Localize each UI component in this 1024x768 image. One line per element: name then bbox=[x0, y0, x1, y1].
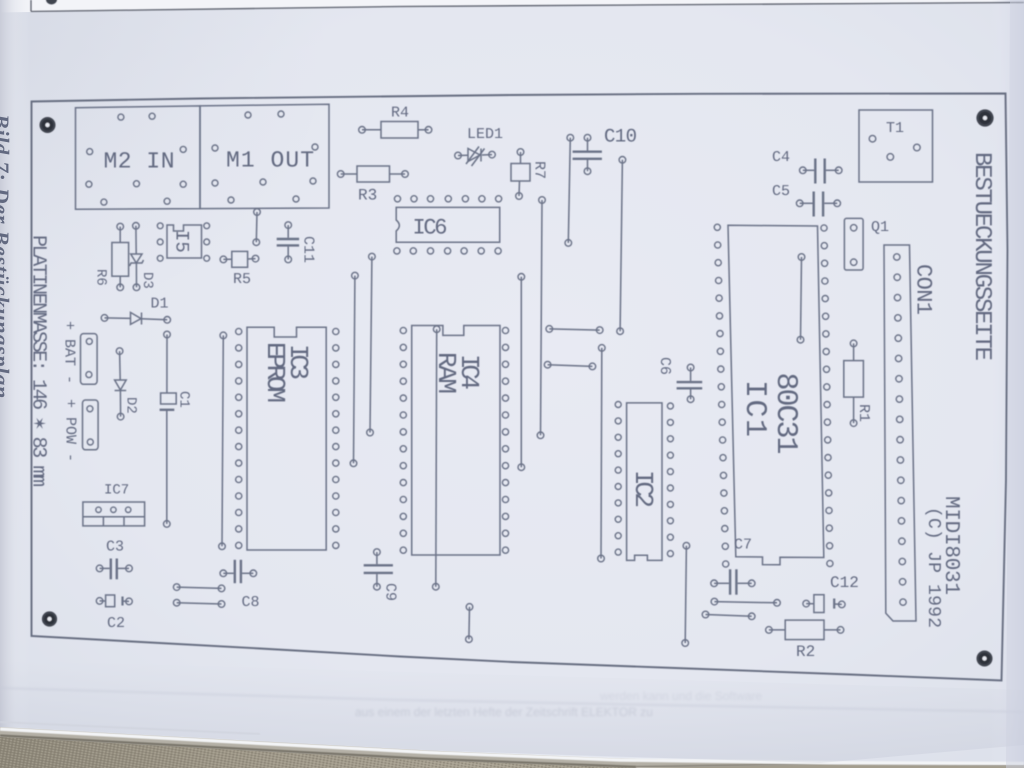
label (C) JP 1992 bbox=[923, 507, 943, 628]
mounting hole top-right bbox=[976, 109, 993, 126]
capacitor C3 bbox=[96, 559, 132, 580]
svg-text:D1: D1 bbox=[151, 296, 169, 313]
wire through IC4 bbox=[433, 326, 441, 590]
svg-text:R5: R5 bbox=[233, 271, 251, 288]
crystal Q1 bbox=[844, 218, 863, 270]
svg-text:C11: C11 bbox=[300, 236, 317, 263]
svg-text:R3: R3 bbox=[358, 187, 377, 205]
wire below IC6 a bbox=[367, 253, 376, 436]
resistor R3 bbox=[337, 166, 408, 182]
wire left of C10 bbox=[565, 134, 574, 246]
svg-text:C7: C7 bbox=[734, 537, 752, 554]
svg-text:D2: D2 bbox=[123, 397, 139, 414]
svg-text:+ POW -: + POW - bbox=[62, 399, 79, 462]
capacitor C5 bbox=[796, 192, 840, 217]
wire below IC6 b bbox=[350, 272, 358, 466]
capacitor C10 bbox=[573, 134, 602, 174]
IC IC4 RAM bbox=[400, 326, 508, 556]
IC IC6 bbox=[394, 196, 502, 254]
wire jumper e bbox=[598, 345, 605, 562]
capacitor C11 bbox=[277, 222, 299, 263]
jumper wire bottom-left b bbox=[173, 599, 224, 607]
board outline bbox=[32, 94, 1008, 681]
jumper wire bottom-left a bbox=[173, 584, 224, 592]
svg-text:Q1: Q1 bbox=[871, 219, 889, 236]
transformer T1 bbox=[859, 110, 933, 182]
svg-text:+ BAT -: + BAT - bbox=[61, 321, 78, 384]
resistor R6 bbox=[112, 223, 129, 290]
svg-text:EPROM: EPROM bbox=[260, 342, 290, 403]
capacitor C6 bbox=[677, 364, 703, 402]
wire below M1 bbox=[253, 209, 260, 246]
svg-text:C6: C6 bbox=[656, 357, 673, 375]
diode D1 bbox=[101, 312, 170, 324]
wire right of C10 bbox=[617, 157, 626, 335]
resistor R5 bbox=[220, 251, 259, 267]
svg-text:C8: C8 bbox=[242, 594, 260, 611]
svg-text:CON1: CON1 bbox=[911, 264, 936, 315]
caption "Bild 7: Der Bestueckungsplan" bbox=[0, 113, 14, 399]
diode D2 bbox=[115, 348, 127, 420]
jumper wire below IC1 a bbox=[711, 598, 780, 606]
svg-text:IC6: IC6 bbox=[413, 216, 448, 241]
svg-text:R7: R7 bbox=[531, 161, 548, 179]
LED LED1 bbox=[455, 147, 496, 167]
diode D3 bbox=[130, 223, 144, 291]
svg-text:IC2: IC2 bbox=[628, 470, 658, 508]
resistor R7 bbox=[511, 149, 530, 200]
pad block POW bbox=[83, 400, 99, 450]
svg-text:R2: R2 bbox=[796, 643, 815, 661]
capacitor C12 (electrolytic) bbox=[803, 595, 845, 613]
IC IC2 bbox=[615, 402, 673, 561]
wire left of IC3 bbox=[219, 332, 227, 549]
svg-text:C1: C1 bbox=[176, 391, 192, 408]
svg-text:RAM: RAM bbox=[431, 352, 461, 394]
pad block BAT bbox=[81, 334, 98, 385]
connector CON1 bbox=[884, 245, 916, 621]
mounting hole top-left bbox=[40, 117, 56, 133]
frame corner of figure above bbox=[31, 0, 1024, 12]
svg-text:IC1: IC1 bbox=[737, 380, 771, 437]
svg-text:R1: R1 bbox=[855, 404, 872, 422]
jumper wire below IC1 b bbox=[702, 611, 755, 619]
IC I5 (optocoupler) bbox=[157, 223, 209, 261]
IC IC1 80C31 bbox=[714, 224, 833, 567]
wire jumper c bbox=[546, 326, 603, 334]
svg-text:Bild 7: Der Bestückungsplan: Bild 7: Der Bestückungsplan bbox=[0, 113, 14, 399]
IC IC3 EPROM bbox=[236, 327, 339, 550]
mounting hole bottom-left bbox=[42, 611, 57, 626]
capacitor C9 bbox=[364, 549, 393, 590]
svg-text:C5: C5 bbox=[772, 183, 790, 200]
svg-text:M1 OUT: M1 OUT bbox=[226, 148, 314, 174]
svg-text:LED1: LED1 bbox=[467, 126, 503, 143]
wire bottom-center bbox=[466, 604, 473, 643]
capacitor C7 bbox=[711, 569, 755, 594]
wire right of IC2 bbox=[682, 542, 690, 646]
capacitor C4 bbox=[800, 159, 843, 184]
svg-text:C2: C2 bbox=[107, 615, 125, 632]
label MIDI8031 bbox=[939, 496, 962, 595]
resistor R4 bbox=[359, 122, 432, 139]
svg-text:80C31: 80C31 bbox=[768, 373, 802, 455]
connector M2 IN bbox=[76, 106, 201, 209]
svg-text:BESTUECKUNGSSEITE: BESTUECKUNGSSEITE bbox=[968, 152, 995, 361]
svg-text:C12: C12 bbox=[830, 574, 859, 592]
capacitor C8 bbox=[220, 560, 257, 583]
resistor R2 bbox=[766, 620, 844, 640]
svg-text:C4: C4 bbox=[772, 149, 790, 166]
svg-text:C9: C9 bbox=[382, 583, 399, 601]
label PLATINENMASSE: 146 x 83 mm bbox=[27, 235, 50, 487]
svg-text:IC7: IC7 bbox=[104, 483, 129, 499]
svg-text:T1: T1 bbox=[886, 120, 904, 137]
connector M1 OUT bbox=[200, 104, 329, 208]
IC IC7 (regulator) bbox=[83, 502, 145, 526]
svg-text:R4: R4 bbox=[391, 105, 409, 122]
bullet dot of figure above bbox=[46, 0, 57, 5]
svg-text:C10: C10 bbox=[604, 126, 637, 148]
svg-text:PLATINENMASSE: 146 ✶ 83 mm: PLATINENMASSE: 146 ✶ 83 mm bbox=[27, 235, 50, 487]
wire jumper d bbox=[544, 361, 595, 369]
svg-text:(C) JP 1992: (C) JP 1992 bbox=[923, 507, 943, 628]
resistor R1 bbox=[844, 340, 864, 426]
wire jumper a bbox=[518, 274, 525, 471]
capacitor C2 (electrolytic) bbox=[96, 595, 132, 607]
wire jumper b bbox=[537, 197, 545, 439]
svg-text:M2 IN: M2 IN bbox=[104, 149, 175, 175]
mounting hole bottom-right bbox=[977, 651, 993, 667]
svg-text:D3: D3 bbox=[139, 272, 155, 289]
svg-text:I5: I5 bbox=[171, 230, 193, 253]
capacitor C1 (electrolytic) bbox=[160, 331, 177, 527]
label BESTUECKUNGSSEITE bbox=[968, 152, 995, 361]
svg-text:R6: R6 bbox=[93, 269, 109, 286]
svg-text:C3: C3 bbox=[106, 539, 124, 556]
